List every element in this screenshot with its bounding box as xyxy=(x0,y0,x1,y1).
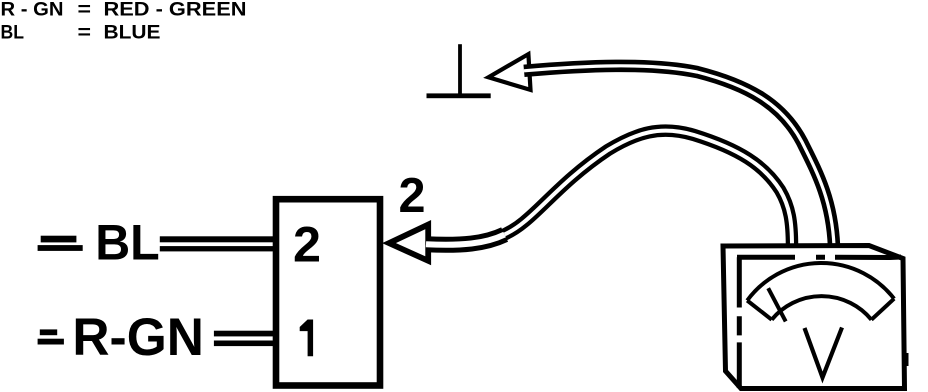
meter needle xyxy=(768,288,786,321)
legend line 1: R - GN = RED - GREEN xyxy=(1,0,247,21)
meter V symbol xyxy=(805,328,843,378)
meter scale arc left end cap xyxy=(747,301,772,320)
probe arrow to connector pin 2 xyxy=(389,225,428,261)
svg-text:BL: BL xyxy=(95,214,160,271)
wire continuation symbol (double bar) at BL wire xyxy=(38,236,83,251)
legend line 2: BL = BLUE xyxy=(1,22,161,44)
wire R-GN (double line) to connector pin 1 xyxy=(214,331,278,346)
svg-text:R - GN: R - GN xyxy=(1,0,64,21)
probe arrow to ground xyxy=(488,54,530,90)
test lead wire to connector pin 2 (double line) xyxy=(426,131,792,246)
voltmeter body (3D box silhouette) xyxy=(723,246,905,389)
svg-text:2: 2 xyxy=(399,169,426,223)
meter scale arc right end cap xyxy=(871,299,894,320)
meter scale arc (inner) xyxy=(772,296,872,320)
pin number 1 (inside connector) xyxy=(300,320,313,357)
wire BL (double line) to connector pin 2 xyxy=(160,236,278,251)
meter scale arc (outer) xyxy=(747,263,894,301)
svg-text:RED - GREEN: RED - GREEN xyxy=(104,0,247,21)
svg-text:=: = xyxy=(78,22,92,44)
test lead wire to ground (double line) xyxy=(524,66,834,246)
wire continuation symbol (double bar) at R-GN wire xyxy=(38,329,64,344)
svg-text:BLUE: BLUE xyxy=(104,22,161,44)
connector block xyxy=(276,199,380,385)
svg-text:BL: BL xyxy=(1,22,25,44)
svg-text:=: = xyxy=(78,0,92,21)
ground symbol xyxy=(427,44,491,98)
voltmeter front face left edge (dash-dot) xyxy=(737,257,742,388)
voltmeter front face top edge (dash-dot) xyxy=(737,255,901,261)
svg-text:R-GN: R-GN xyxy=(72,308,204,367)
svg-text:2: 2 xyxy=(293,216,321,272)
meter right edge terminal bump xyxy=(904,353,909,366)
